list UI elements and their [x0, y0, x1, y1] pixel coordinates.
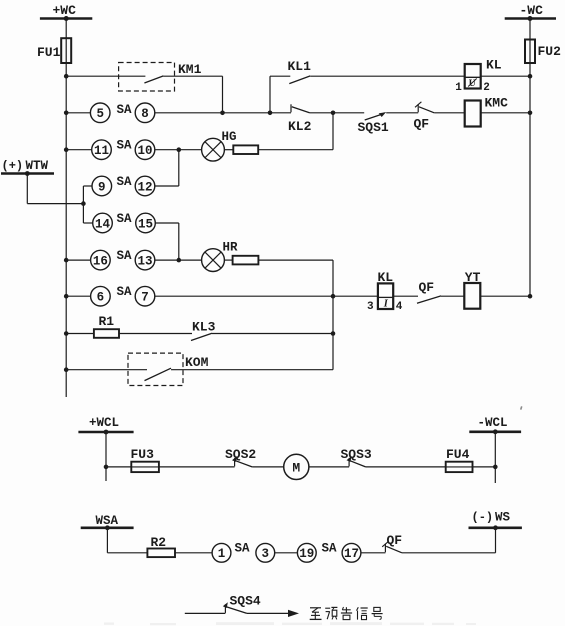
- svg-text:SA: SA: [235, 542, 251, 556]
- junction right bus / YT row: [528, 294, 533, 299]
- bus WTW (+ supply): [1, 172, 54, 175]
- svg-text:(-): (-): [472, 511, 494, 525]
- indicator lamp HR: [202, 249, 225, 272]
- wire FU4 to -WCL vertical: [473, 466, 496, 468]
- svg-text:HR: HR: [223, 241, 239, 255]
- terminal 16: [91, 250, 111, 270]
- junction branch1 / HR row: [177, 258, 182, 263]
- terminal 8: [135, 103, 155, 123]
- wire KMC to right bus: [481, 112, 530, 114]
- resistor (HR dropping): [233, 256, 259, 265]
- annotation: to pre-alarm signal (Chinese): [310, 607, 321, 609]
- indicator lamp HG: [202, 138, 225, 161]
- svg-text:KL: KL: [486, 58, 502, 73]
- svg-text:SA: SA: [117, 249, 133, 263]
- wire KM1 branch vertical drop: [222, 76, 224, 113]
- junction left bus / row 16-13: [64, 258, 69, 263]
- contact KOM (normally open): [145, 368, 172, 380]
- wire SQS4 row start: [185, 612, 226, 614]
- svg-text:R2: R2: [151, 535, 167, 550]
- wire KL 4 to QF: [393, 295, 418, 297]
- svg-text:15: 15: [138, 217, 153, 231]
- svg-text:12: 12: [137, 180, 152, 194]
- wire WTW vertical drop: [26, 174, 28, 204]
- terminal 15: [136, 213, 156, 233]
- wire to FU3: [106, 466, 131, 468]
- terminal 17: [342, 543, 361, 562]
- svg-text:M: M: [292, 461, 300, 476]
- wire WTW horizontal (crosses left bus): [27, 203, 83, 205]
- svg-text:1: 1: [218, 547, 226, 561]
- contact SQS3 (arrow tick, descending blade): [348, 458, 350, 466]
- svg-text:SQS2: SQS2: [225, 447, 256, 462]
- wire KM1 row to drop: [163, 75, 222, 77]
- wire terminal 8 to KL2: [155, 112, 291, 114]
- wire KL1 row start: [270, 75, 290, 77]
- wire 14-15 row horizontal: [83, 222, 92, 224]
- svg-text:KM1: KM1: [178, 62, 202, 77]
- fuse FU3: [131, 462, 159, 472]
- contact QF auxiliary (row B): [417, 104, 419, 112]
- svg-text:QF: QF: [387, 533, 403, 548]
- wire vertical 9/14 branch: [82, 186, 84, 223]
- svg-text:11: 11: [94, 144, 109, 158]
- arrow to annunciator signal: [288, 610, 299, 617]
- bus WSA: [81, 526, 134, 529]
- svg-text:13: 13: [137, 254, 152, 268]
- svg-text:-WC: -WC: [520, 3, 544, 18]
- wire R1 to KL3: [119, 333, 192, 335]
- fuse FU2: [525, 40, 535, 64]
- svg-text:SA: SA: [117, 139, 133, 153]
- wire branch2 vertical (HR to KOM): [332, 260, 334, 370]
- junction WS bus: [493, 525, 498, 530]
- terminal 9: [92, 176, 112, 196]
- contact QF auxiliary (row 6-7): [417, 296, 441, 303]
- wire terminal 7 to KL contact: [155, 295, 378, 297]
- svg-text:QF: QF: [419, 280, 435, 295]
- wire left vertical bus: [65, 19, 67, 39]
- bus +WC (positive control bus): [40, 17, 92, 20]
- wire left bus to R1: [66, 333, 94, 335]
- terminal 19: [297, 543, 316, 562]
- junction right bus / KMC row: [528, 111, 533, 116]
- svg-text:KMC: KMC: [485, 95, 509, 110]
- faint cropped caption at bottom edge: [104, 622, 476, 625]
- svg-text:SA: SA: [117, 285, 133, 299]
- terminal 13: [135, 250, 155, 270]
- svg-text:2: 2: [483, 82, 490, 94]
- wire terminal 15 to branch1: [155, 222, 179, 224]
- junction branch2 / R1 row: [331, 331, 336, 336]
- junction left bus / KOM row: [64, 367, 69, 372]
- bus +WCL: [78, 431, 133, 434]
- wire FU3 to SQS2: [159, 466, 235, 468]
- junction -WC/right bus: [528, 16, 533, 21]
- wire HR row to branch2: [258, 259, 333, 261]
- wire motor to SQS3: [309, 466, 349, 468]
- wire SQS1 to QF: [386, 112, 418, 114]
- wire QF to WS vertical: [402, 552, 496, 554]
- svg-text:14: 14: [95, 217, 111, 231]
- wire SQS2 to motor: [252, 466, 284, 468]
- wire KOM to branch2: [171, 369, 333, 371]
- svg-text:SQS4: SQS4: [230, 593, 261, 608]
- svg-text:8: 8: [141, 107, 149, 121]
- terminal 12: [135, 176, 155, 196]
- junction -WCL bus: [493, 429, 498, 434]
- wire terminal 12 to branch1: [155, 185, 179, 187]
- wire KM1 row from left bus: [66, 75, 145, 77]
- wire WSA vertical and corner to R2: [106, 528, 108, 553]
- svg-text:SA: SA: [322, 542, 338, 556]
- svg-text:1: 1: [455, 82, 462, 94]
- svg-text:KL1: KL1: [288, 59, 312, 74]
- svg-text:SQS3: SQS3: [341, 447, 372, 462]
- bus -WC (negative control bus): [505, 17, 556, 20]
- wire QF to trip coil YT: [441, 295, 465, 297]
- wire lamp HR to resistor: [224, 259, 232, 261]
- contact KL2 (with tick, descending blade): [290, 104, 292, 112]
- svg-text:KL: KL: [378, 270, 394, 285]
- svg-text:4: 4: [396, 301, 403, 313]
- svg-text:SA: SA: [117, 212, 133, 226]
- resistor (HG dropping): [233, 145, 258, 154]
- wire KL2 to SQS1: [310, 112, 365, 114]
- contact SQS2 (arrow tick, descending blade): [234, 458, 236, 466]
- wire HG row to branch2 corner: [258, 149, 333, 151]
- contact SQS4 (arrow tick, descending blade): [224, 604, 226, 613]
- svg-text:16: 16: [93, 254, 108, 268]
- junction branch to row 9-12: [177, 147, 182, 152]
- svg-text:17: 17: [344, 547, 359, 561]
- wire (-)WS vertical: [495, 528, 497, 553]
- bus -WCL: [469, 430, 521, 433]
- junction WTW / terminal branch: [81, 201, 86, 206]
- wire KL1 row to relay KL: [310, 75, 464, 77]
- wire KL1 branch vertical: [269, 76, 271, 113]
- junction left bus / row 11-10: [64, 147, 69, 152]
- contactor KM1 dashed enclosure: [119, 63, 175, 92]
- resistor R1: [94, 329, 119, 338]
- svg-text:19: 19: [299, 547, 314, 561]
- svg-text:6: 6: [97, 291, 105, 305]
- wire right vertical bus: [529, 19, 531, 40]
- junction HG branch / main row: [331, 111, 336, 116]
- wire left bus to terminal 16: [66, 259, 90, 261]
- svg-text:5: 5: [96, 107, 104, 121]
- wire SQS4 to arrow: [247, 612, 288, 614]
- svg-text:10: 10: [137, 144, 152, 158]
- wire +WCL vertical: [105, 432, 107, 481]
- trip coil YT: [464, 283, 480, 309]
- junction left bus / R1 row: [64, 331, 69, 336]
- terminal 10: [135, 140, 155, 160]
- svg-text:HG: HG: [222, 130, 237, 144]
- terminal 6: [91, 286, 111, 306]
- svg-text:3: 3: [367, 301, 374, 313]
- svg-text:(+): (+): [2, 159, 24, 173]
- svg-text:7: 7: [141, 291, 149, 305]
- wire left bus to terminal 6: [66, 295, 90, 297]
- wire QF to contactor coil KMC: [434, 112, 465, 114]
- junction +WC/left bus: [64, 16, 69, 21]
- junction KM1 branch / main row: [220, 111, 225, 116]
- contact KL1 (normally open): [289, 76, 310, 84]
- wire terminal 17 to QF: [361, 552, 386, 554]
- svg-text:WTW: WTW: [26, 159, 49, 173]
- svg-text:SA: SA: [117, 175, 133, 189]
- svg-text:R1: R1: [99, 314, 115, 329]
- svg-text:FU1: FU1: [37, 45, 61, 60]
- relay KOM dashed enclosure: [128, 353, 183, 385]
- junction -WCL / FU4 row: [493, 465, 498, 470]
- wire -WCL vertical: [494, 432, 496, 483]
- terminal 5: [90, 103, 110, 123]
- wire left bus to terminal 5: [66, 112, 90, 114]
- wire SQS3 to FU4: [366, 466, 446, 468]
- junction branch2 / row 6-7: [331, 294, 336, 299]
- wire branch1 vertical down to HR row: [178, 223, 180, 260]
- svg-text:KL2: KL2: [288, 119, 312, 134]
- relay coil KL (pins 1-2): [465, 64, 481, 89]
- junction WTW bus: [25, 171, 30, 176]
- wire KL coil to right bus: [481, 75, 530, 77]
- terminal 1: [212, 543, 231, 562]
- contact KL3 (normally open): [191, 333, 212, 340]
- junction right bus / KL row: [528, 74, 533, 79]
- svg-text:QF: QF: [414, 117, 430, 132]
- contact SQS1 (with arrow blade): [365, 114, 384, 120]
- svg-text:+WCL: +WCL: [89, 416, 119, 430]
- junction left bus / KM1 row: [64, 74, 69, 79]
- junction +WCL bus: [104, 430, 109, 435]
- svg-text:YT: YT: [465, 270, 481, 285]
- svg-text:KOM: KOM: [185, 355, 209, 370]
- svg-text:FU4: FU4: [446, 447, 470, 462]
- terminal 7: [135, 286, 155, 306]
- junction KL1 branch / main row: [268, 111, 273, 116]
- wire HG branch vertical up to main row: [332, 113, 334, 150]
- wire terminal 3 to 19: [275, 552, 298, 554]
- junction +WCL / FU3 row: [104, 465, 109, 470]
- wire terminal 10 to lamp HG: [155, 149, 202, 151]
- svg-text:SQS1: SQS1: [358, 120, 389, 135]
- junction left bus / row 6-7: [64, 294, 69, 299]
- fuse FU1: [61, 38, 71, 63]
- junction WSA bus: [105, 525, 110, 530]
- relay contact KL (pins 3-4): [378, 283, 393, 309]
- fuse FU4: [446, 462, 473, 472]
- contact QF (bottom row): [384, 544, 386, 553]
- svg-text:WS: WS: [495, 511, 511, 525]
- wire terminal 13 to lamp HR: [155, 259, 202, 261]
- stray scan speck: [520, 406, 523, 410]
- terminal 11: [92, 140, 112, 160]
- svg-text:KL3: KL3: [192, 320, 216, 335]
- wire left bus to terminal 11: [66, 149, 92, 151]
- wire YT to right bus: [480, 295, 530, 297]
- wire branch1 vertical up to HG row: [178, 150, 180, 186]
- wire lamp to dropping resistor: [224, 149, 233, 151]
- wire R2 to terminal 1: [175, 552, 212, 554]
- contactor coil KMC: [465, 101, 481, 127]
- junction left bus / row 5-8: [64, 111, 69, 116]
- contact KM1 (normally open): [144, 76, 163, 83]
- svg-text:3: 3: [262, 547, 270, 561]
- bus (-)WS: [469, 526, 522, 529]
- wire KL3 to branch2: [212, 333, 333, 335]
- svg-text:I: I: [383, 299, 389, 310]
- terminal 3: [256, 543, 275, 562]
- resistor R2: [147, 549, 175, 558]
- svg-text:FU3: FU3: [131, 447, 155, 462]
- wire 9-12 row horizontal: [83, 185, 92, 187]
- svg-text:-WCL: -WCL: [478, 416, 508, 430]
- svg-text:SA: SA: [117, 103, 133, 117]
- terminal 14: [93, 213, 113, 233]
- wire left bus into KOM box: [66, 369, 147, 371]
- motor M: [284, 454, 309, 479]
- svg-text:9: 9: [98, 180, 106, 194]
- svg-text:FU2: FU2: [538, 44, 562, 59]
- svg-text:+WC: +WC: [53, 3, 77, 18]
